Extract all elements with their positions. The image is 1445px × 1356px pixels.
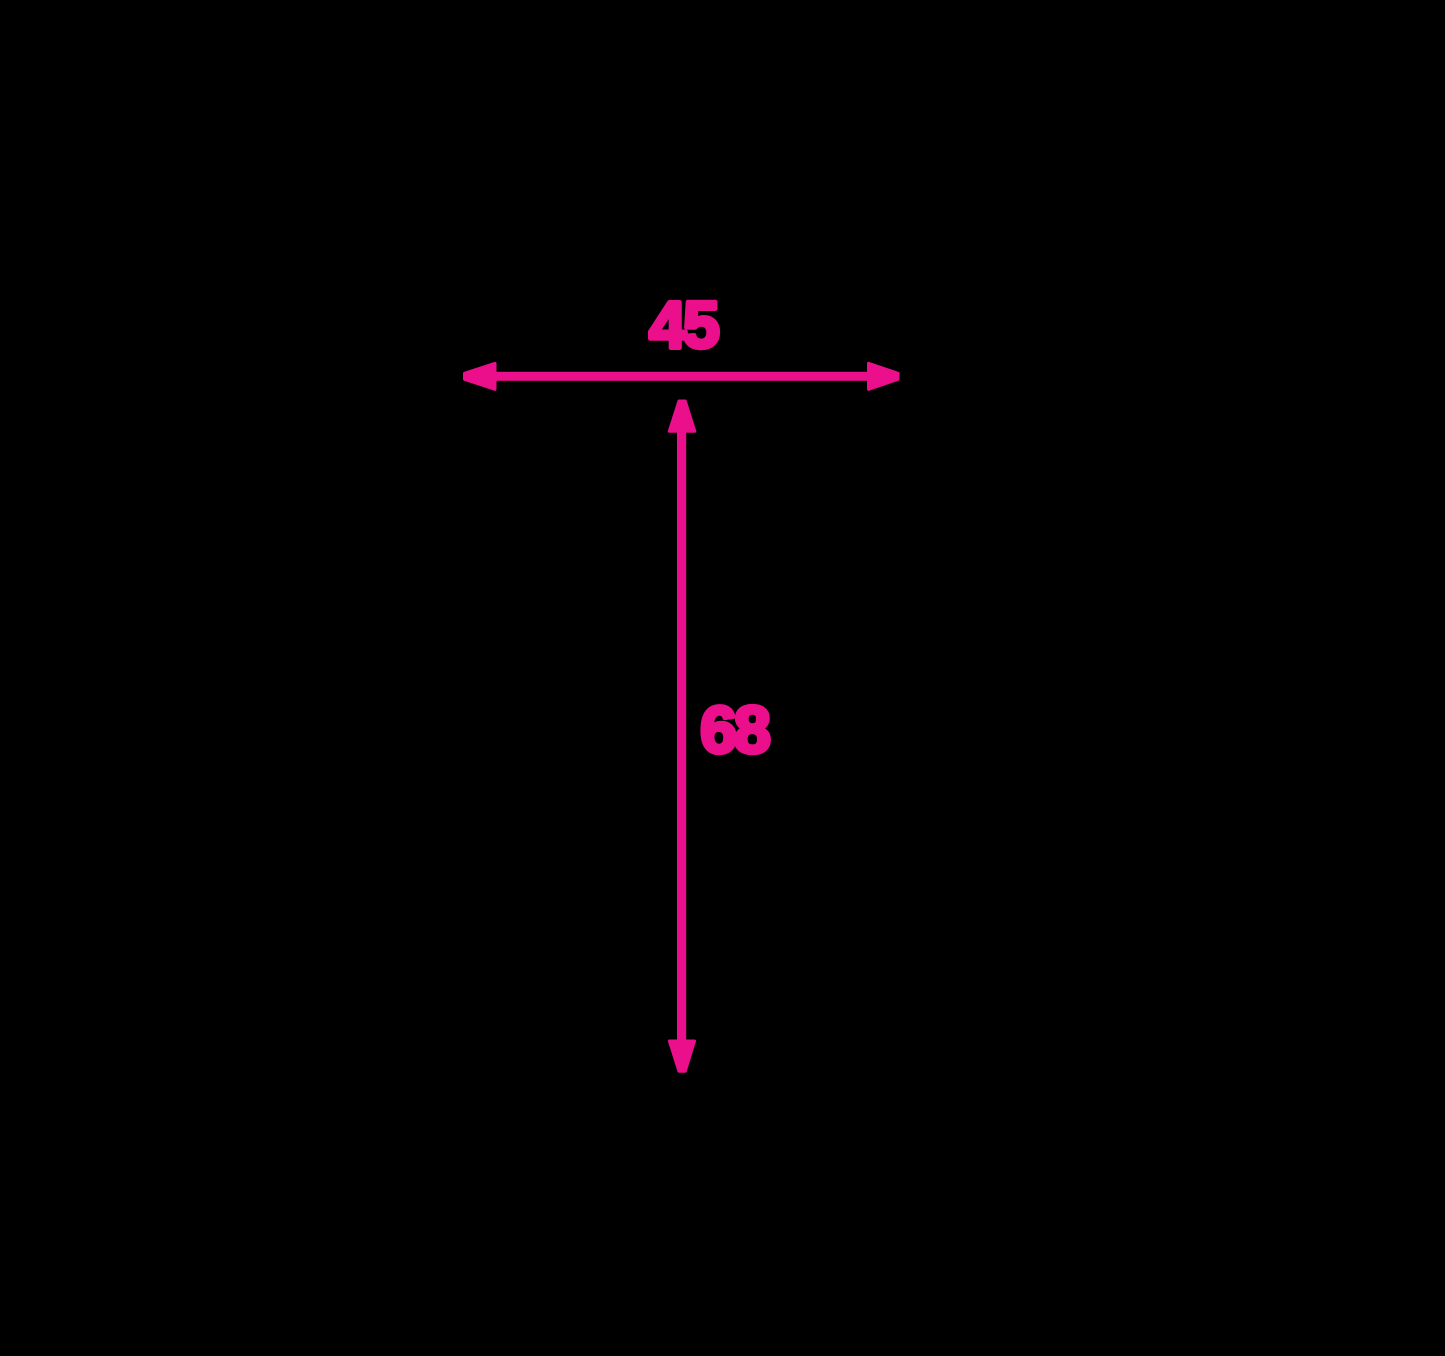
horizontal arrow right head [869,363,899,389]
vertical arrow bottom head [669,1041,694,1071]
horizontal dimension arrow (45) shaft [490,372,875,381]
svg-text:68: 68 [700,693,769,767]
vertical arrow top head [669,401,695,431]
vertical dimension arrow (68) shaft [677,428,686,1044]
horizontal arrow left head [465,363,496,389]
svg-text:45: 45 [649,288,718,362]
